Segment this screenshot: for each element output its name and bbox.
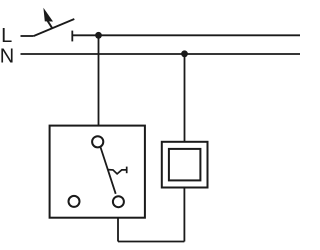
- node L junction dot: [95, 32, 102, 39]
- switch unit S2 bottom-right terminal: [113, 196, 124, 207]
- wire from device down: [183, 188, 185, 242]
- device U1 outer square: [162, 142, 208, 188]
- switch unit S2 top terminal: [92, 136, 103, 147]
- node N junction dot: [181, 50, 188, 57]
- switch S1 actuator arrow tail: [47, 20, 52, 28]
- device U1 inner square: [169, 149, 201, 181]
- wire N rail: [21, 53, 301, 55]
- switch S1 blade: [34, 19, 75, 36]
- switch S1 fixed contact: [71, 31, 73, 42]
- switch unit S2 bottom-left terminal: [69, 196, 80, 207]
- wire bottom return horizontal: [118, 241, 184, 243]
- wire L rail: [72, 34, 300, 36]
- svg-text:N: N: [0, 46, 14, 68]
- wire from N node down to device: [184, 54, 186, 141]
- switch unit S2 internal blade: [100, 147, 115, 194]
- wire from switch unit bottom down: [117, 218, 119, 242]
- wire from L node down to switch unit: [98, 35, 100, 125]
- wire L feed segment: [21, 35, 34, 37]
- switch S1 actuator arrow head: [43, 8, 53, 22]
- svg-text:L: L: [1, 25, 12, 47]
- switch unit S2 squiggle end tick: [126, 167, 128, 174]
- switch unit S2 interlock squiggle: [108, 170, 127, 174]
- switch unit S2 body: [50, 126, 145, 218]
